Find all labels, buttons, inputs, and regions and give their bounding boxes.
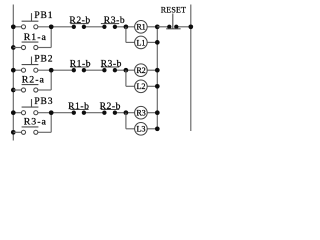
contact R1-a (NO holding contact, parallel branch) xyxy=(13,32,51,50)
node rail-branch3 xyxy=(11,130,16,135)
svg-text:R3-b: R3-b xyxy=(101,59,122,70)
contact R3-b (NC interlock) xyxy=(101,59,122,73)
pushbutton RESET (NC momentary) xyxy=(161,6,186,29)
wire contact R2-b to contact R3-b xyxy=(84,26,105,28)
svg-text:L1: L1 xyxy=(137,38,146,47)
contact R1-b (NC interlock) xyxy=(70,59,91,73)
svg-text:R2-a: R2-a xyxy=(22,74,45,85)
svg-text:R3-a: R3-a xyxy=(24,117,47,128)
node branch1 merge xyxy=(49,24,54,29)
wire coil R3 to bus xyxy=(147,112,157,114)
svg-text:PB1: PB1 xyxy=(34,10,53,21)
lamp L1 xyxy=(135,36,148,49)
lamp L2 xyxy=(135,80,148,93)
node bus-lamp2 xyxy=(155,84,160,89)
svg-text:R3-b: R3-b xyxy=(104,15,125,26)
wire rung3 left rail to PB3 xyxy=(13,112,21,114)
svg-text:L3: L3 xyxy=(137,125,146,134)
wire contact R1-b to contact R3-b xyxy=(84,69,105,71)
wire PB3 to contact R1-b xyxy=(38,112,74,114)
svg-text:R2-b: R2-b xyxy=(100,101,121,112)
node rail-rung2 xyxy=(11,68,16,73)
node rail-branch2 xyxy=(11,88,16,93)
svg-text:R1-b: R1-b xyxy=(70,59,91,70)
svg-text:R2: R2 xyxy=(136,66,145,75)
wire contact R1-b to contact R2-b xyxy=(84,112,105,114)
node bus-rung3 xyxy=(155,110,160,115)
node coil split rung2 xyxy=(124,68,129,73)
node coil split rung3 xyxy=(124,110,129,115)
node branch3 merge xyxy=(49,110,54,115)
wire branch3 riser xyxy=(50,113,52,133)
wire branch1 riser xyxy=(50,27,52,48)
svg-text:R1-b: R1-b xyxy=(68,101,89,112)
wire RESET to right rail xyxy=(176,26,191,28)
pushbutton PB3 (NO momentary) xyxy=(21,96,53,115)
node rail-rung1 xyxy=(11,24,16,29)
wire lamp branch rung3 xyxy=(126,113,157,129)
node bus-lamp1 xyxy=(155,40,160,45)
pushbutton PB2 (NO momentary) xyxy=(21,54,53,73)
svg-text:L2: L2 xyxy=(137,82,146,91)
svg-text:RESET: RESET xyxy=(161,6,186,15)
node right rail xyxy=(188,24,193,29)
pushbutton PB1 (NO momentary) xyxy=(21,10,53,29)
wire coil R1 to bus xyxy=(147,26,157,28)
contact R2-a (NO holding contact, parallel branch) xyxy=(13,74,51,92)
svg-text:R3: R3 xyxy=(136,109,145,118)
contact R2-b (NC interlock) xyxy=(100,101,121,115)
svg-text:R2-b: R2-b xyxy=(69,15,90,26)
node rail-rung3 xyxy=(11,110,16,115)
wire contact R3-b to coil R1 xyxy=(115,26,135,28)
wire contact R3-b to coil R2 xyxy=(115,69,135,71)
svg-text:PB3: PB3 xyxy=(34,96,53,107)
relay coil R1 xyxy=(135,21,148,34)
contact R3-a (NO holding contact, parallel branch) xyxy=(13,117,51,135)
node branch2 merge xyxy=(49,68,54,73)
wire bus to RESET xyxy=(157,26,169,28)
wire rung2 left rail to PB2 xyxy=(13,69,21,71)
node bus-lamp3 xyxy=(155,126,160,131)
left power rail xyxy=(12,5,14,141)
wire contact R2-b to coil R3 xyxy=(115,112,135,114)
wire branch2 riser xyxy=(50,70,52,90)
contact R2-b (NC interlock) xyxy=(69,15,90,29)
node rail-branch1 xyxy=(11,45,16,50)
node coil split rung1 xyxy=(124,24,129,29)
contact R1-b (NC interlock) xyxy=(68,101,89,115)
wire lamp branch rung2 xyxy=(126,70,157,86)
output bus xyxy=(156,27,158,129)
contact R3-b (NC interlock) xyxy=(101,15,125,29)
right power rail xyxy=(190,5,192,132)
wire lamp branch rung1 xyxy=(126,27,157,43)
relay coil R2 xyxy=(135,64,148,77)
wire coil R2 to bus xyxy=(147,69,157,71)
wire rung1 left rail to PB1 xyxy=(13,26,21,28)
svg-text:PB2: PB2 xyxy=(34,54,53,65)
relay coil R3 xyxy=(135,106,148,119)
svg-text:R1: R1 xyxy=(136,23,145,32)
node bus-rung1 xyxy=(155,24,160,29)
svg-text:R1-a: R1-a xyxy=(24,32,47,43)
wire PB1 to contact R2-b xyxy=(38,26,74,28)
node bus-rung2 xyxy=(155,68,160,73)
lamp L3 xyxy=(135,123,148,136)
wire PB2 to contact R1-b xyxy=(38,69,74,71)
